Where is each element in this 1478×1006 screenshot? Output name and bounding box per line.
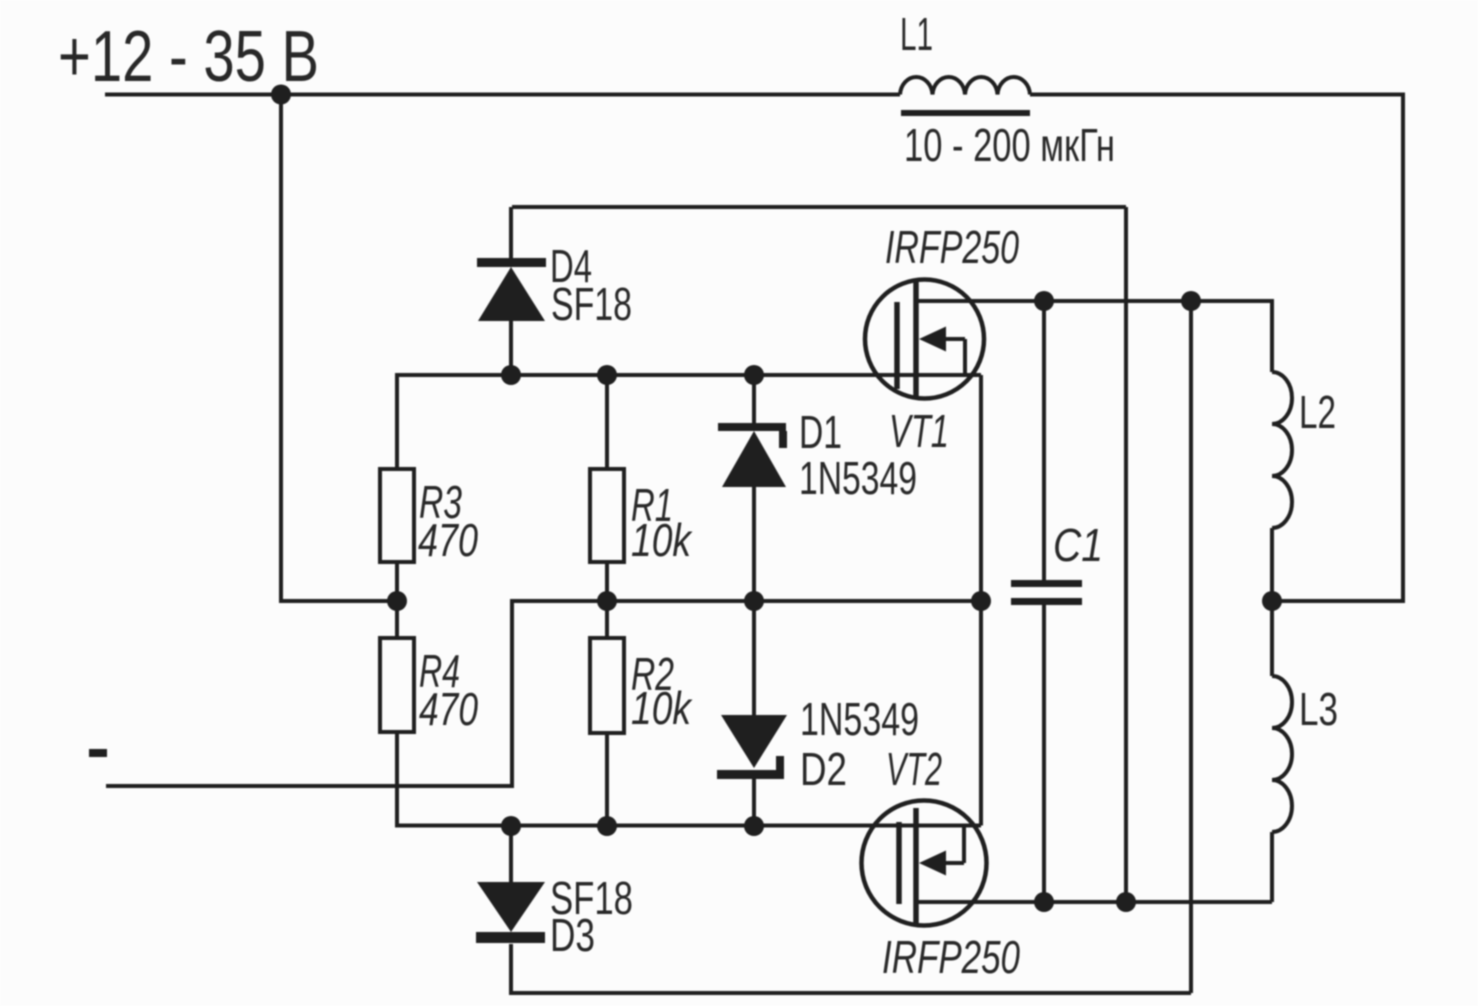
svg-text:10 - 200 мкГн: 10 - 200 мкГн bbox=[904, 119, 1115, 171]
svg-text:L1: L1 bbox=[900, 8, 933, 60]
svg-text:10k: 10k bbox=[631, 682, 693, 734]
svg-text:VT1: VT1 bbox=[889, 405, 949, 457]
svg-text:C1: C1 bbox=[1053, 519, 1103, 571]
svg-text:470: 470 bbox=[419, 683, 478, 735]
svg-text:470: 470 bbox=[418, 514, 478, 566]
svg-text:IRFP250: IRFP250 bbox=[885, 221, 1019, 273]
svg-text:SF18: SF18 bbox=[551, 278, 632, 330]
svg-text:1N5349: 1N5349 bbox=[799, 452, 917, 504]
svg-text:D2: D2 bbox=[800, 743, 847, 795]
svg-text:1N5349: 1N5349 bbox=[800, 693, 919, 745]
svg-text:10k: 10k bbox=[631, 514, 693, 566]
svg-text:L2: L2 bbox=[1299, 386, 1336, 438]
svg-text:D3: D3 bbox=[550, 909, 595, 961]
svg-text:IRFP250: IRFP250 bbox=[882, 931, 1020, 983]
svg-text:L3: L3 bbox=[1299, 683, 1338, 735]
svg-text:D1: D1 bbox=[799, 406, 842, 458]
svg-text:VT2: VT2 bbox=[886, 743, 942, 795]
svg-text:+12 - 35 В: +12 - 35 В bbox=[58, 17, 319, 97]
